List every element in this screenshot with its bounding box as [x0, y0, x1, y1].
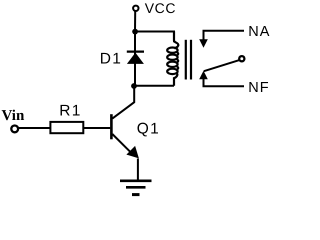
transistor Q1 emitter — [112, 134, 132, 154]
wire VCC stem — [134, 11, 136, 31]
svg-text:D1: D1 — [100, 50, 122, 67]
node VCC terminal — [133, 6, 138, 11]
arrow Q1 emitter — [126, 146, 138, 159]
wire Vin to R1 — [18, 127, 50, 129]
inductor relay coil — [167, 32, 178, 86]
diode D1 (triangle) — [127, 53, 144, 64]
node junction bottom — [131, 83, 137, 89]
relay core line 1 — [185, 40, 187, 80]
node junction top — [132, 29, 138, 35]
svg-text:VCC: VCC — [145, 0, 176, 16]
wire top rail — [135, 32, 174, 43]
relay core line 2 — [190, 40, 192, 80]
svg-text:NA: NA — [248, 24, 270, 40]
transistor Q1 collector — [112, 86, 134, 119]
transistor Q1 base bar — [110, 114, 113, 139]
svg-text:Vin: Vin — [2, 108, 25, 124]
wire R1 to base — [83, 127, 110, 129]
node armature pivot — [239, 56, 244, 61]
resistor R1 — [50, 122, 83, 133]
ground — [120, 181, 152, 195]
wire NA contact — [204, 31, 245, 41]
wire emitter to ground — [137, 159, 139, 181]
arrow NF contact — [199, 71, 208, 80]
wire NF contact — [204, 78, 245, 87]
diode D1 (cathode bar) — [127, 50, 144, 52]
wire diode branch — [134, 32, 136, 86]
svg-text:Q1: Q1 — [137, 121, 160, 138]
svg-text:R1: R1 — [59, 103, 81, 120]
wire relay armature — [204, 60, 239, 71]
node Vin terminal — [11, 125, 18, 132]
svg-text:NF: NF — [248, 80, 269, 96]
arrow NA contact — [199, 39, 208, 48]
wire coil bottom rail — [134, 85, 174, 87]
